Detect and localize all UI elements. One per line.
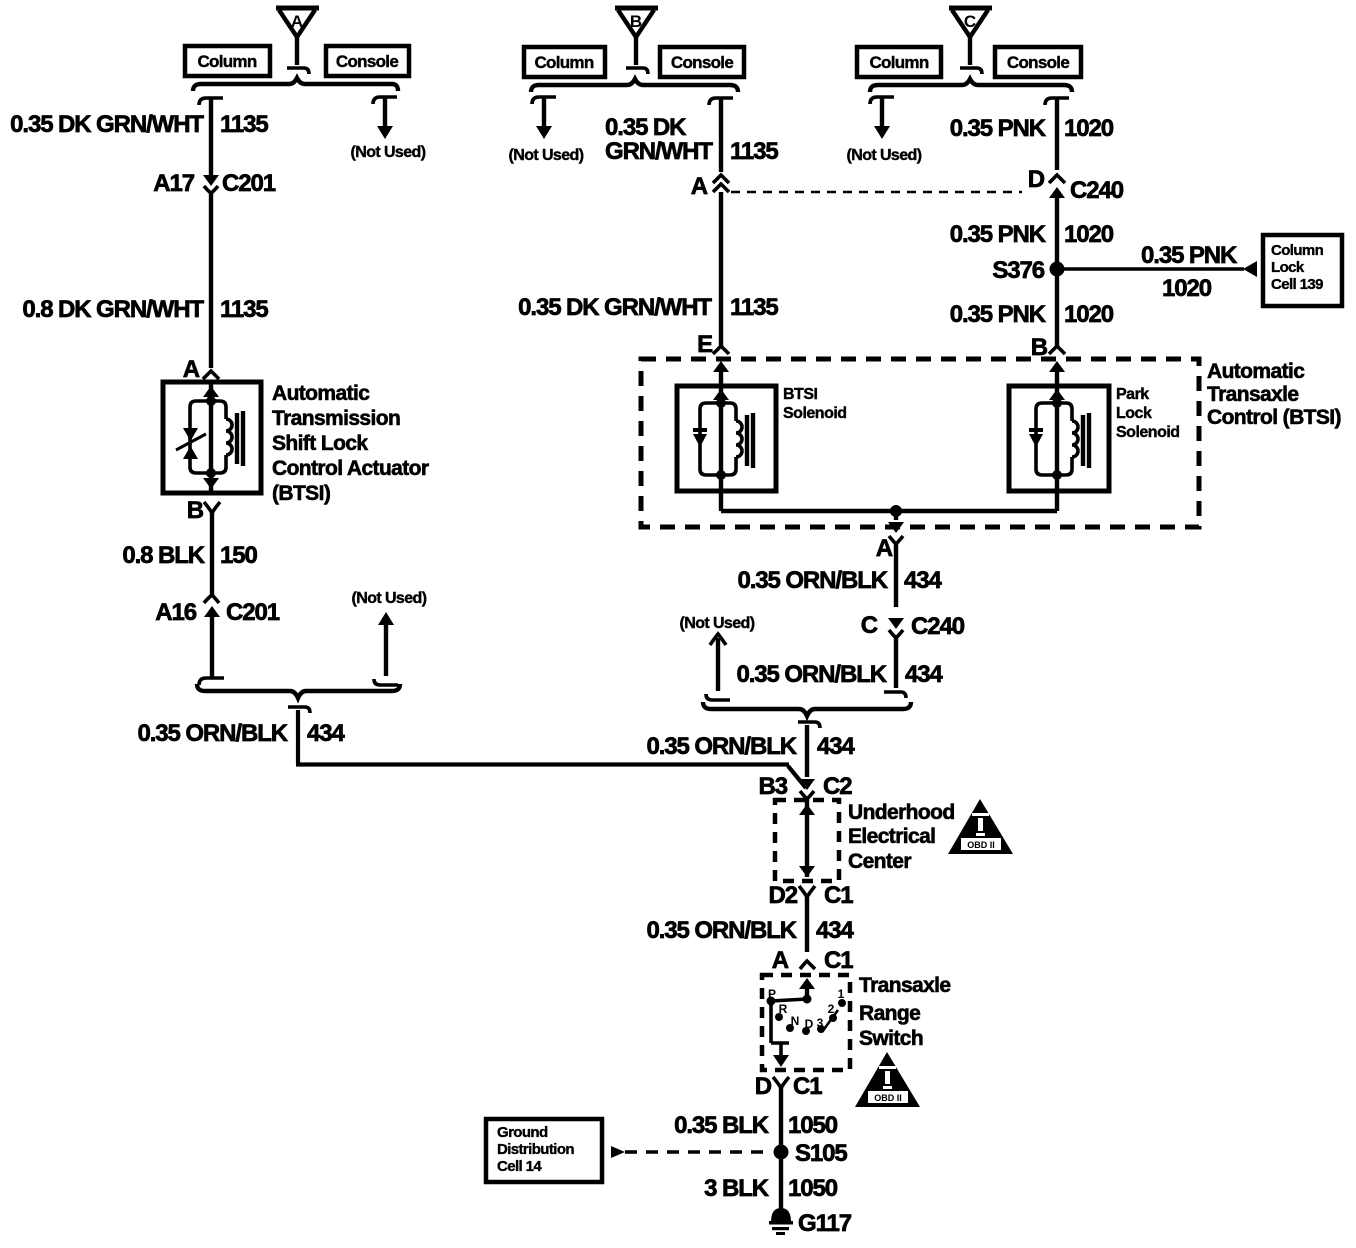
svg-text:N: N <box>791 1014 800 1028</box>
not used stub (A group) <box>351 97 426 161</box>
svg-text:GRN/WHT: GRN/WHT <box>605 138 713 165</box>
label 0.35 DK GRN/WHT 1135 (B upper) <box>605 114 778 165</box>
label 0.8 BLK 150 <box>122 542 257 569</box>
wire 3 BLK 1050 <box>779 1152 783 1210</box>
reference box Column Lock Cell 139 <box>1263 235 1342 306</box>
svg-text:434: 434 <box>816 917 854 944</box>
label 0.35 PNK 1020 (row3) <box>950 301 1114 328</box>
svg-text:1: 1 <box>838 987 845 1001</box>
connector box Console (B) <box>660 47 744 77</box>
svg-text:P: P <box>768 987 776 1001</box>
wire through UEC <box>799 799 815 877</box>
svg-text:Cell 14: Cell 14 <box>497 1158 542 1175</box>
wire from triangle B <box>626 37 648 74</box>
connector C240 pin C <box>861 612 965 640</box>
svg-text:0.35 ORN/BLK: 0.35 ORN/BLK <box>646 917 797 944</box>
svg-text:Solenoid: Solenoid <box>1116 424 1180 441</box>
svg-text:A: A <box>876 535 893 562</box>
wire 1020 lower (C group) <box>1055 269 1059 346</box>
solenoid L1 BTSI Solenoid <box>677 386 776 491</box>
svg-text:C1: C1 <box>793 1073 822 1100</box>
splice S105 <box>774 1140 848 1167</box>
svg-text:Distribution: Distribution <box>497 1141 574 1158</box>
pin A exit of module <box>876 522 904 562</box>
wire 434 from mid brace <box>798 722 820 777</box>
svg-text:1020: 1020 <box>1162 275 1212 302</box>
svg-text:0.8 BLK: 0.8 BLK <box>122 542 205 569</box>
svg-text:1135: 1135 <box>730 138 778 165</box>
svg-text:C2: C2 <box>823 773 852 800</box>
wire bus to exit <box>894 511 898 520</box>
svg-text:1135: 1135 <box>730 294 778 321</box>
svg-text:S376: S376 <box>992 257 1044 284</box>
svg-text:OBD II: OBD II <box>967 840 995 850</box>
svg-text:A: A <box>772 947 789 974</box>
svg-text:Transmission: Transmission <box>272 407 400 430</box>
label Park Lock Solenoid <box>1116 386 1180 441</box>
svg-text:0.35 PNK: 0.35 PNK <box>950 301 1047 328</box>
svg-text:A: A <box>183 356 200 383</box>
not used stub (lower left) <box>352 590 427 685</box>
svg-text:Column: Column <box>1271 242 1324 259</box>
svg-text:C201: C201 <box>222 170 276 197</box>
OBD II triangle (TRS) <box>855 1052 920 1107</box>
svg-text:C240: C240 <box>911 613 965 640</box>
label BTSI Solenoid <box>783 386 847 422</box>
svg-text:Control Actuator: Control Actuator <box>272 457 429 480</box>
svg-text:B3: B3 <box>759 773 788 800</box>
dashed box Underhood Electrical Center <box>775 800 839 881</box>
dashed link A to D <box>731 191 1022 194</box>
ground G117 <box>769 1208 852 1237</box>
svg-text:Cell 139: Cell 139 <box>1271 276 1323 293</box>
connector C1 pin D <box>755 1073 822 1100</box>
wire 434 below C240 <box>884 638 906 698</box>
svg-text:B: B <box>630 12 642 31</box>
triangle marker C <box>949 8 992 37</box>
svg-text:A16: A16 <box>155 599 196 626</box>
svg-text:1050: 1050 <box>788 1112 838 1139</box>
svg-text:Column: Column <box>197 52 256 71</box>
wire 1135 top (B group) <box>709 98 733 172</box>
svg-text:1020: 1020 <box>1064 221 1114 248</box>
svg-text:A17: A17 <box>153 170 194 197</box>
connector C201 pin A16 <box>155 595 279 626</box>
svg-text:D: D <box>805 1017 814 1031</box>
label Transaxle Range Switch <box>859 974 951 1050</box>
svg-text:0.35 BLK: 0.35 BLK <box>674 1112 770 1139</box>
svg-text:0.35 DK: 0.35 DK <box>605 114 687 141</box>
svg-text:Column: Column <box>534 53 593 72</box>
dashed module box Automatic Transaxle Control (BTSI) <box>641 359 1199 527</box>
svg-text:C: C <box>964 12 976 31</box>
solenoid L2 Park Lock Solenoid <box>1009 386 1109 491</box>
svg-text:1135: 1135 <box>220 296 268 323</box>
svg-text:D: D <box>1028 166 1045 193</box>
not used stub (B group) <box>509 97 584 164</box>
svg-text:B: B <box>187 497 204 524</box>
svg-text:Automatic: Automatic <box>1207 360 1305 383</box>
svg-text:(Not Used): (Not Used) <box>351 144 426 161</box>
wire 434 UEC to TRS <box>805 896 809 952</box>
svg-text:0.35 DK GRN/WHT: 0.35 DK GRN/WHT <box>518 294 712 321</box>
svg-text:2: 2 <box>828 1002 835 1016</box>
triangle marker B <box>615 8 658 37</box>
label 0.35 ORN/BLK 434 (above C2) <box>646 733 855 760</box>
wire from triangle C <box>960 37 982 74</box>
pin E of BTSI solenoid <box>697 331 729 386</box>
reference box Ground Distribution Cell 14 <box>486 1119 602 1182</box>
svg-text:C1: C1 <box>824 882 853 909</box>
svg-text:0.8 DK GRN/WHT: 0.8 DK GRN/WHT <box>22 296 204 323</box>
connector box Column (C) <box>857 47 941 77</box>
svg-text:Shift Lock: Shift Lock <box>272 432 368 455</box>
svg-text:434: 434 <box>905 661 943 688</box>
branch wire to Column Lock <box>1057 261 1257 277</box>
svg-text:Underhood: Underhood <box>848 801 955 824</box>
svg-text:C1: C1 <box>824 947 853 974</box>
svg-text:150: 150 <box>220 542 257 569</box>
wire from triangle A <box>287 37 309 74</box>
actuator U1 Automatic Transmission Shift Lock Control Actuator (BTSI) <box>163 382 261 493</box>
svg-text:Transaxle: Transaxle <box>1207 383 1299 406</box>
svg-text:(Not Used): (Not Used) <box>509 147 584 164</box>
svg-text:434: 434 <box>307 720 345 747</box>
brace under Column/Console A <box>193 78 398 91</box>
svg-text:0.35 PNK: 0.35 PNK <box>950 221 1047 248</box>
lower brace (mid group) <box>703 702 911 716</box>
svg-text:D: D <box>755 1073 772 1100</box>
svg-text:R: R <box>779 1002 788 1016</box>
wire 1135 lower (A group) <box>209 193 213 368</box>
svg-text:C: C <box>861 612 878 639</box>
svg-text:Console: Console <box>336 52 398 71</box>
svg-text:G117: G117 <box>798 1210 852 1237</box>
connector C240 pin D <box>1028 166 1124 204</box>
svg-text:1050: 1050 <box>788 1175 838 1202</box>
svg-text:0.35 DK GRN/WHT: 0.35 DK GRN/WHT <box>10 111 204 138</box>
svg-text:Ground: Ground <box>497 1124 548 1141</box>
wire 434 from pin A <box>894 544 898 607</box>
label 0.35 DK GRN/WHT 1135 (B lower) <box>518 294 778 321</box>
triangle marker A <box>276 8 319 37</box>
OBD II triangle (UEC) <box>948 799 1013 854</box>
svg-text:D2: D2 <box>769 882 798 909</box>
wire 0.35 ORN/BLK 434 to UEC <box>288 707 806 788</box>
actuator title text <box>272 382 429 505</box>
wire 1135 lower (B group) <box>719 192 723 346</box>
svg-text:1135: 1135 <box>220 111 268 138</box>
svg-text:Console: Console <box>1007 53 1069 72</box>
svg-text:Electrical: Electrical <box>848 825 935 848</box>
wire 1020 top (C group) <box>1045 98 1069 170</box>
label 0.35 BLK 1050 <box>674 1112 838 1139</box>
label 0.35 ORN/BLK 434 (lower mid) <box>736 661 943 688</box>
label 0.35 ORN/BLK 434 (left) <box>137 720 345 747</box>
svg-text:0.35 ORN/BLK: 0.35 ORN/BLK <box>137 720 288 747</box>
svg-text:Transaxle: Transaxle <box>859 974 951 997</box>
brace under Column/Console B <box>531 79 738 92</box>
not used stub (mid) <box>680 615 755 700</box>
svg-text:C201: C201 <box>226 599 280 626</box>
pin A node (B group) <box>691 173 729 200</box>
switch SW1 transaxle range switch contacts <box>767 978 847 1067</box>
connector C2 pin B3 <box>759 773 853 800</box>
svg-text:A: A <box>691 173 708 200</box>
svg-text:Switch: Switch <box>859 1027 923 1050</box>
svg-text:Solenoid: Solenoid <box>783 405 847 422</box>
svg-text:Range: Range <box>859 1002 920 1025</box>
svg-text:0.35 ORN/BLK: 0.35 ORN/BLK <box>646 733 797 760</box>
svg-text:434: 434 <box>817 733 855 760</box>
svg-text:3 BLK: 3 BLK <box>704 1175 770 1202</box>
svg-text:A: A <box>291 12 303 31</box>
svg-text:Console: Console <box>671 53 733 72</box>
module title Automatic Transaxle Control (BTSI) <box>1207 360 1341 429</box>
connector box Console (A) <box>326 46 409 76</box>
dashed link to Ground Distribution <box>611 1146 772 1158</box>
svg-text:1020: 1020 <box>1064 301 1114 328</box>
label 0.35 PNK 1020 (branch) <box>1141 242 1238 302</box>
connector box Column (B) <box>524 47 605 77</box>
label 3 BLK 1050 <box>704 1175 838 1202</box>
pin A of actuator <box>183 356 219 383</box>
connector C201 pin A17 <box>153 170 275 197</box>
label 0.35 PNK 1020 (row1) <box>950 115 1114 142</box>
wire to lower brace (A group) <box>199 617 224 685</box>
pin B of actuator <box>187 497 220 524</box>
svg-text:(Not Used): (Not Used) <box>680 615 755 632</box>
connector C1 pin A <box>772 947 853 974</box>
brace under Column/Console C <box>870 79 1072 92</box>
connector C1 pin D2 <box>769 882 854 909</box>
svg-text:Lock: Lock <box>1116 405 1152 422</box>
dashed box Transaxle Range Switch <box>762 975 850 1070</box>
junction node on bus <box>890 505 902 517</box>
svg-text:0.35 PNK: 0.35 PNK <box>950 115 1047 142</box>
svg-text:(Not Used): (Not Used) <box>847 147 922 164</box>
splice S376 <box>992 257 1064 284</box>
svg-text:Control (BTSI): Control (BTSI) <box>1207 406 1341 429</box>
wire 0.8 BLK 150 <box>210 512 214 596</box>
label 0.35 ORN/BLK 434 (upper mid) <box>737 567 942 594</box>
svg-text:1020: 1020 <box>1064 115 1114 142</box>
svg-text:C240: C240 <box>1070 177 1124 204</box>
svg-text:E: E <box>697 331 713 358</box>
svg-text:434: 434 <box>904 567 942 594</box>
svg-text:OBD II: OBD II <box>874 1093 902 1103</box>
svg-text:3: 3 <box>817 1016 824 1030</box>
svg-text:Automatic: Automatic <box>272 382 370 405</box>
wire 1135 top (A group) <box>199 98 223 176</box>
svg-text:Park: Park <box>1116 386 1149 403</box>
wire 1020 mid (C group) <box>1055 190 1059 262</box>
label 0.8 DK GRN/WHT 1135 <box>22 296 268 323</box>
connector box Console (C) <box>995 47 1081 77</box>
svg-text:Lock: Lock <box>1271 259 1305 276</box>
svg-text:(Not Used): (Not Used) <box>352 590 427 607</box>
connector box Column (A) <box>185 46 270 76</box>
svg-text:Center: Center <box>848 850 911 873</box>
svg-text:0.35 ORN/BLK: 0.35 ORN/BLK <box>737 567 888 594</box>
label 0.35 PNK 1020 (row2) <box>950 221 1114 248</box>
wire solenoid commons bus <box>721 491 1057 511</box>
svg-text:Column: Column <box>869 53 928 72</box>
not used stub (C group) <box>847 97 922 164</box>
svg-text:0.35 ORN/BLK: 0.35 ORN/BLK <box>736 661 887 688</box>
wire 0.35 BLK 1050 <box>779 1087 783 1152</box>
lower brace (A group) <box>197 684 400 698</box>
svg-text:S105: S105 <box>795 1140 847 1167</box>
svg-text:BTSI: BTSI <box>783 386 818 403</box>
svg-text:0.35 PNK: 0.35 PNK <box>1141 242 1238 269</box>
label 0.35 ORN/BLK 434 (below UEC) <box>646 917 854 944</box>
label 0.35 DK GRN/WHT 1135 <box>10 111 268 138</box>
pin B of Park Lock solenoid <box>1031 334 1065 386</box>
label Underhood Electrical Center <box>848 801 955 873</box>
svg-text:(BTSI): (BTSI) <box>272 482 330 505</box>
